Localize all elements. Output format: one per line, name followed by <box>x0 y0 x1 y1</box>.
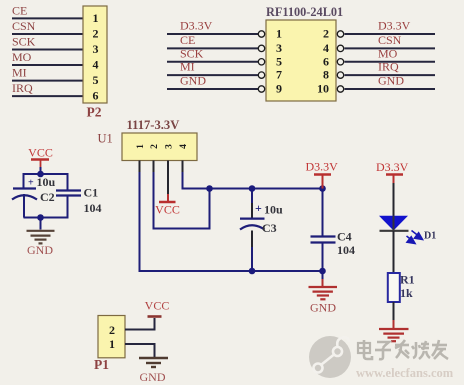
svg-text:GND: GND <box>310 301 336 315</box>
svg-text:GND: GND <box>378 74 404 88</box>
svg-text:VCC: VCC <box>145 299 170 313</box>
svg-text:GND: GND <box>140 370 166 384</box>
svg-text:10u: 10u <box>37 175 56 189</box>
svg-text:1: 1 <box>93 11 99 25</box>
svg-text:D3.3V: D3.3V <box>306 160 339 174</box>
svg-text:D3.3V: D3.3V <box>378 19 411 33</box>
svg-text:4: 4 <box>93 58 99 72</box>
svg-text:104: 104 <box>84 201 102 215</box>
svg-text:C4: C4 <box>337 230 352 244</box>
svg-text:2: 2 <box>150 144 160 149</box>
svg-text:2: 2 <box>109 323 115 337</box>
svg-text:MI: MI <box>12 66 27 80</box>
svg-text:6: 6 <box>323 54 329 68</box>
svg-text:GND: GND <box>27 243 53 257</box>
svg-text:1: 1 <box>276 27 282 41</box>
svg-text:1k: 1k <box>400 286 413 300</box>
svg-text:4: 4 <box>323 41 329 55</box>
svg-text:VCC: VCC <box>28 146 53 160</box>
svg-text:2: 2 <box>93 27 99 41</box>
svg-text:MI: MI <box>180 60 195 74</box>
svg-text:IRQ: IRQ <box>378 60 399 74</box>
svg-text:104: 104 <box>337 243 355 257</box>
svg-text:www.elecfans.com: www.elecfans.com <box>356 366 454 380</box>
svg-text:7: 7 <box>276 68 282 82</box>
svg-text:CE: CE <box>12 3 27 17</box>
svg-text:1: 1 <box>136 144 146 149</box>
svg-text:4: 4 <box>179 144 189 149</box>
svg-text:5: 5 <box>93 73 99 87</box>
svg-text:CSN: CSN <box>12 19 36 33</box>
svg-text:2: 2 <box>323 27 329 41</box>
svg-text:1117-3.3V: 1117-3.3V <box>127 118 180 132</box>
svg-text:10u: 10u <box>264 203 283 217</box>
svg-text:5: 5 <box>276 54 282 68</box>
svg-text:6: 6 <box>93 89 99 103</box>
svg-text:C2: C2 <box>40 190 55 204</box>
svg-text:CSN: CSN <box>378 33 402 47</box>
svg-text:U1: U1 <box>98 132 113 146</box>
svg-text:MO: MO <box>12 50 32 64</box>
svg-text:9: 9 <box>276 82 282 96</box>
svg-text:SCK: SCK <box>180 46 204 60</box>
svg-text:C3: C3 <box>262 221 277 235</box>
svg-text:C1: C1 <box>84 186 99 200</box>
svg-text:D1: D1 <box>424 231 436 242</box>
svg-text:3: 3 <box>276 41 282 55</box>
svg-text:+: + <box>255 201 262 215</box>
svg-text:SCK: SCK <box>12 35 36 49</box>
svg-text:8: 8 <box>323 68 329 82</box>
svg-text:1: 1 <box>109 337 115 351</box>
svg-text:GND: GND <box>180 74 206 88</box>
svg-text:10: 10 <box>317 82 329 96</box>
svg-text:CE: CE <box>180 33 195 47</box>
svg-text:3: 3 <box>165 144 175 149</box>
svg-text:RF1100-24L01: RF1100-24L01 <box>266 5 343 19</box>
svg-text:3: 3 <box>93 42 99 56</box>
svg-text:P2: P2 <box>87 105 102 120</box>
svg-text:+: + <box>28 178 34 189</box>
svg-text:P1: P1 <box>94 357 109 372</box>
svg-text:R1: R1 <box>400 273 415 287</box>
svg-text:D3.3V: D3.3V <box>180 19 213 33</box>
svg-text:MO: MO <box>378 46 398 60</box>
svg-text:VCC: VCC <box>155 203 180 217</box>
svg-text:IRQ: IRQ <box>12 81 33 95</box>
svg-text:D3.3V: D3.3V <box>376 160 409 174</box>
